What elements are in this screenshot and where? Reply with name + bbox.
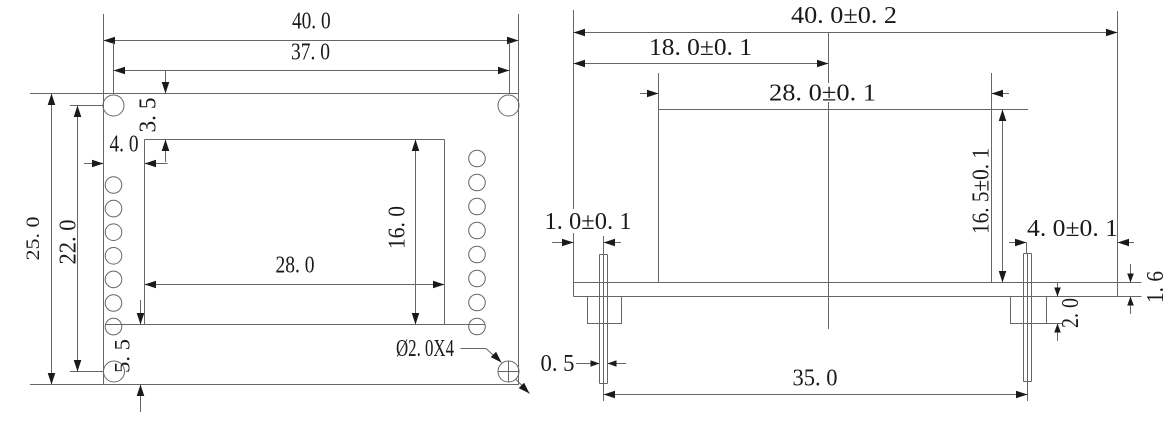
dim 22.0 dimension line (77, 106, 79, 372)
svg-text:4. 0: 4. 0 (110, 132, 139, 158)
dim 40.0+-0.2 left extension line (573, 10, 575, 283)
left pin spacer block (588, 297, 622, 324)
dim 28.0+-0.1 right extension line (991, 73, 993, 110)
dim 0.5 right arrow (608, 363, 627, 365)
dim 40.0 left extension line (103, 14, 105, 94)
dim 40.0 right extension line (518, 14, 520, 94)
svg-text:25. 0: 25. 0 (23, 217, 44, 261)
dim 37.0 right extension line (509, 42, 511, 94)
dim 16.5+-0.1 dimension line (1002, 110, 1004, 283)
dim 28.0+-0.1 right outside arrow (992, 93, 1010, 95)
board outline front view (104, 94, 519, 385)
side view display body (659, 109, 992, 111)
dim 4.0 left arrow (84, 163, 104, 165)
dim 1.6 lower arrow (1130, 297, 1132, 315)
display window bottom edge through pin rows (106, 324, 486, 326)
dim 16.0 dimension line (415, 140, 417, 325)
right pin (1023, 254, 1025, 382)
dim 3.5 lower arrow (165, 140, 167, 163)
svg-text:1. 6: 1. 6 (1143, 271, 1169, 303)
svg-text:35. 0: 35. 0 (793, 366, 838, 392)
svg-text:40. 0: 40. 0 (292, 9, 331, 35)
dim 4.0 right arrow (145, 163, 168, 165)
dim 40.0+-0.2 right extension line (1117, 11, 1119, 283)
svg-text:16. 5±0. 1: 16. 5±0. 1 (969, 148, 995, 234)
dim 1.0+-0.1 left arrow (552, 242, 574, 244)
bottom-right hole crosshair (498, 371, 520, 373)
dim 4.0+-0.1 left arrow (1009, 242, 1027, 244)
left pin hole column (105, 177, 122, 194)
svg-text:16. 0: 16. 0 (385, 206, 411, 249)
svg-text:2. 0: 2. 0 (1058, 298, 1084, 328)
dim 22.0 bottom extension line (70, 371, 104, 373)
dim 35.0 left extension line (603, 384, 605, 402)
svg-text:0. 5: 0. 5 (541, 351, 575, 377)
mounting hole top-left (103, 95, 124, 116)
dim 28.0+-0.1 left extension line (658, 73, 660, 110)
dim 1.0+-0.1 extension tick (603, 236, 605, 255)
dim 28.0 dimension line (145, 284, 445, 286)
dim 40.0+-0.2 dimension line (574, 32, 1118, 34)
dim 40.0 dimension line (104, 40, 519, 42)
hole callout arrowhead at hole (491, 352, 502, 363)
dim 0.5 left arrow (576, 363, 600, 365)
dim 2.0 lower arrow (1057, 324, 1059, 342)
dim 5.5 lower arrow (140, 385, 142, 413)
svg-text:3. 5: 3. 5 (136, 98, 162, 133)
dim 4.0+-0.1 extension tick (1026, 243, 1028, 254)
dim 28.0+-0.1 left outside arrow (640, 93, 659, 95)
dim 25.0 dimension line (51, 94, 53, 385)
dim 1.0+-0.1 right arrow (604, 242, 622, 244)
dim 3.5 upper arrow (165, 71, 167, 94)
svg-text:4. 0±0. 1: 4. 0±0. 1 (1027, 216, 1118, 242)
dim 16.5+-0.1 top extension line (992, 109, 1029, 111)
dim 2.0 block extension line (1047, 323, 1064, 325)
hole callout leader line (461, 348, 487, 350)
dim 25.0 top extension line (30, 93, 104, 95)
dim 5.5 upper arrow (140, 300, 142, 325)
dim 4.0+-0.1 right arrow (1118, 242, 1135, 244)
mounting hole bottom-right (498, 361, 519, 382)
hole callout tail line with outward arrowhead (516, 379, 530, 393)
side view PCB strip (574, 282, 1142, 284)
dim 1.0+-0.1 label (543, 209, 633, 233)
svg-text:18. 0±0. 1: 18. 0±0. 1 (649, 35, 752, 61)
right pin hole column (469, 150, 486, 167)
svg-text:Ø2. 0X4: Ø2. 0X4 (396, 336, 454, 362)
dim 18.0+-0.1 dimension line (574, 63, 829, 65)
dim 28.0+-0.1 label (768, 83, 877, 102)
dim 37.0 left extension line (113, 42, 115, 94)
dim 2.0 upper arrow (1057, 283, 1059, 297)
dim 1.6 upper arrow (1130, 264, 1132, 283)
dim 37.0 dimension line (114, 70, 510, 72)
mounting hole top-right (498, 95, 519, 116)
svg-text:22. 0: 22. 0 (56, 220, 82, 265)
svg-text:5. 5: 5. 5 (109, 339, 134, 373)
left pin (599, 255, 601, 384)
dim 35.0 right extension line (1027, 382, 1029, 402)
svg-text:28. 0±0. 1: 28. 0±0. 1 (769, 81, 876, 107)
svg-text:1. 0±0. 1: 1. 0±0. 1 (545, 209, 632, 235)
right pin spacer block (1011, 297, 1047, 324)
vertical centerline (828, 33, 830, 330)
svg-text:37. 0: 37. 0 (291, 40, 330, 66)
svg-text:40. 0±0. 2: 40. 0±0. 2 (791, 3, 897, 29)
display window outline (145, 139, 445, 141)
dim 25.0 bottom extension line (30, 384, 104, 386)
svg-text:28. 0: 28. 0 (276, 253, 315, 279)
dim 22.0 top extension line (70, 105, 104, 107)
dim 35.0 dimension line (604, 394, 1028, 396)
mounting hole bottom-left (104, 361, 125, 382)
